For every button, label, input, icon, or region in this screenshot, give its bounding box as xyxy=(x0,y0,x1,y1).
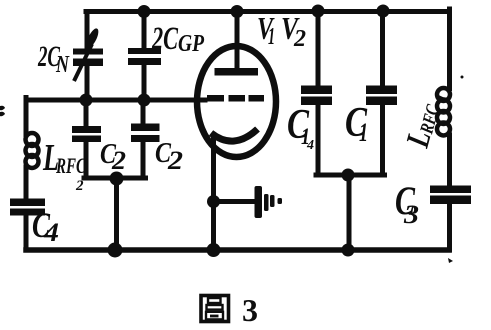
wire 2CGP branch xyxy=(142,12,147,101)
node junction dots xyxy=(80,5,390,258)
capacitor C14 plates xyxy=(301,86,332,95)
label C14 xyxy=(287,102,314,153)
stray speck near right coil xyxy=(461,76,464,79)
capacitor 2CGP plates xyxy=(128,48,161,54)
left edge artifact xyxy=(0,106,5,117)
wire connector tap to ground rail xyxy=(347,175,352,250)
tube plate bar xyxy=(215,68,259,76)
wire left rail xyxy=(24,98,29,251)
wire C14-C1 connector xyxy=(316,173,385,178)
capacitor C3 plates xyxy=(430,186,471,194)
tube grid dashes xyxy=(207,95,264,102)
svg-text:N: N xyxy=(55,52,70,78)
wire C14 branch xyxy=(316,12,321,176)
wire C1 branch xyxy=(380,12,385,176)
svg-text:2: 2 xyxy=(167,146,183,175)
wire C2 right branch xyxy=(141,100,146,178)
capacitor C1 plates xyxy=(366,86,397,95)
tube cathode arc xyxy=(211,129,258,141)
wire C2 tap to ground rail xyxy=(114,178,119,250)
wire right rail xyxy=(447,9,452,250)
capacitor C2 left plates xyxy=(72,126,101,133)
caption character 圖 xyxy=(201,296,229,322)
capacitor C4 plates xyxy=(10,199,45,207)
label L RFC2 xyxy=(42,137,86,194)
svg-text:4: 4 xyxy=(306,138,314,153)
svg-text:1: 1 xyxy=(359,118,368,147)
label 2CGP xyxy=(151,21,204,57)
label C2 right xyxy=(155,137,183,175)
svg-text:GP: GP xyxy=(178,31,204,57)
ground symbol (rotated) xyxy=(255,186,283,218)
label C4 xyxy=(32,205,59,247)
inductor L RFC1 coil xyxy=(437,88,450,136)
capacitor C2 right plates xyxy=(131,124,160,132)
svg-text:RFC: RFC xyxy=(55,153,86,178)
label 2CN xyxy=(37,40,70,78)
svg-text:2: 2 xyxy=(111,146,126,175)
wire bottom rail xyxy=(26,247,449,253)
tube V1V2 envelope xyxy=(197,46,276,157)
label V1V2 xyxy=(257,10,306,52)
inductor L RFC2 coil xyxy=(26,133,39,168)
svg-text:2: 2 xyxy=(75,178,84,194)
capacitor 2CN plates xyxy=(73,49,103,55)
svg-text:2: 2 xyxy=(293,26,306,52)
bottom-right stray tick xyxy=(448,258,453,263)
wire C2 connector xyxy=(84,176,146,181)
wire 2CN branch xyxy=(85,12,90,101)
svg-text:3: 3 xyxy=(242,292,258,328)
svg-text:3: 3 xyxy=(403,200,419,229)
wire plate lead xyxy=(235,12,240,69)
svg-text:1: 1 xyxy=(268,24,275,50)
wire cathode lead xyxy=(211,139,216,250)
svg-text:2C: 2C xyxy=(151,21,178,57)
wire C2 left branch xyxy=(84,100,89,178)
wire cathode to ground symbol xyxy=(214,199,255,204)
label C1 xyxy=(345,100,368,147)
label L RFC1 (rotated) xyxy=(400,87,451,152)
wire grid rail xyxy=(26,98,205,103)
wire top rail xyxy=(86,9,449,14)
svg-text:4: 4 xyxy=(43,218,59,247)
label C2 left xyxy=(100,138,126,175)
variable capacitor arrow on 2CN xyxy=(74,27,101,81)
label C3 xyxy=(395,178,419,229)
